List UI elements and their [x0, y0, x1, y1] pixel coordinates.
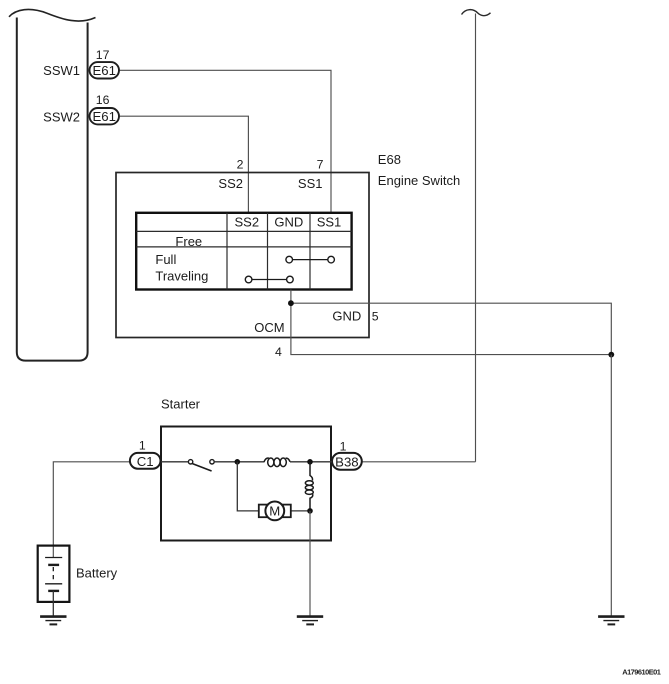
- svg-text:Starter: Starter: [161, 396, 201, 411]
- svg-text:5: 5: [372, 310, 379, 324]
- svg-text:7: 7: [317, 158, 324, 172]
- connector C1: [130, 453, 161, 469]
- solenoid pull-in coil (horizontal): [264, 458, 290, 467]
- svg-text:Traveling: Traveling: [155, 268, 208, 283]
- contact SS2-GND (full traveling): [245, 276, 293, 283]
- starter box: [161, 427, 331, 541]
- wire right ground drop: [610, 355, 612, 617]
- wire GND column to junction: [290, 290, 292, 304]
- connector B38: [332, 453, 362, 470]
- svg-text:Battery: Battery: [76, 565, 118, 580]
- wire SSW1 to engine switch pin 7: [119, 70, 331, 213]
- junction node GND: [288, 300, 294, 306]
- svg-text:17: 17: [96, 48, 110, 62]
- svg-text:E68: E68: [378, 152, 401, 167]
- svg-text:1: 1: [139, 439, 146, 453]
- ground (right): [598, 617, 624, 625]
- wire battery to C1: [53, 462, 130, 558]
- ECU block left bar (relay block): [9, 9, 96, 360]
- switch contact left: [188, 460, 192, 464]
- svg-text:M: M: [269, 504, 280, 519]
- wire to motor left: [237, 462, 259, 511]
- junction node coil out: [307, 459, 313, 465]
- contact GND-SS1 (full traveling): [286, 256, 335, 263]
- junction node right: [608, 352, 614, 358]
- wire coil to B38: [290, 461, 332, 463]
- hold-in coil (vertical): [305, 462, 313, 511]
- svg-text:SSW2: SSW2: [43, 109, 80, 124]
- connector E61 (SSW1): [90, 62, 120, 78]
- svg-text:SS2: SS2: [218, 176, 243, 191]
- motor M1: [259, 502, 291, 521]
- wire starter to ground: [309, 511, 311, 617]
- wire B38 to top (SSW power): [475, 14, 477, 462]
- svg-text:Engine Switch: Engine Switch: [378, 173, 460, 188]
- ground (battery): [40, 617, 66, 625]
- svg-text:Free: Free: [175, 234, 202, 249]
- contact table: [136, 213, 351, 290]
- wire OCM pin 4: [291, 303, 611, 354]
- svg-text:SS1: SS1: [317, 215, 342, 230]
- battery: [38, 546, 70, 617]
- svg-text:SS2: SS2: [235, 215, 260, 230]
- junction node switch: [235, 459, 241, 465]
- svg-text:E61: E61: [92, 63, 115, 78]
- ground (starter): [297, 617, 323, 625]
- svg-text:OCM: OCM: [254, 320, 284, 335]
- svg-text:SSW1: SSW1: [43, 63, 80, 78]
- svg-text:2: 2: [237, 158, 244, 172]
- svg-text:E61: E61: [92, 109, 115, 124]
- wire GND pin 5: [291, 303, 611, 354]
- switch blade: [192, 464, 211, 471]
- svg-text:GND: GND: [274, 215, 303, 230]
- switch contact right: [210, 460, 214, 464]
- svg-text:4: 4: [275, 345, 282, 359]
- wire starter input: [161, 461, 188, 463]
- wire switch to coil: [214, 461, 264, 463]
- wire break squiggle top: [462, 10, 491, 16]
- svg-text:B38: B38: [335, 454, 358, 469]
- engine switch box E68: [116, 173, 369, 338]
- svg-text:C1: C1: [137, 454, 154, 469]
- wire motor right: [291, 510, 311, 512]
- svg-text:GND: GND: [332, 309, 361, 324]
- svg-text:SS1: SS1: [298, 176, 323, 191]
- svg-text:A179610E01: A179610E01: [622, 668, 661, 677]
- svg-text:1: 1: [340, 439, 347, 453]
- wire SSW2 to engine switch pin 2: [119, 116, 248, 213]
- wire B38 out: [362, 461, 476, 463]
- junction node motor: [307, 508, 313, 514]
- connector E61 (SSW2): [90, 108, 120, 124]
- svg-text:Full: Full: [155, 252, 176, 267]
- svg-text:16: 16: [96, 93, 110, 107]
